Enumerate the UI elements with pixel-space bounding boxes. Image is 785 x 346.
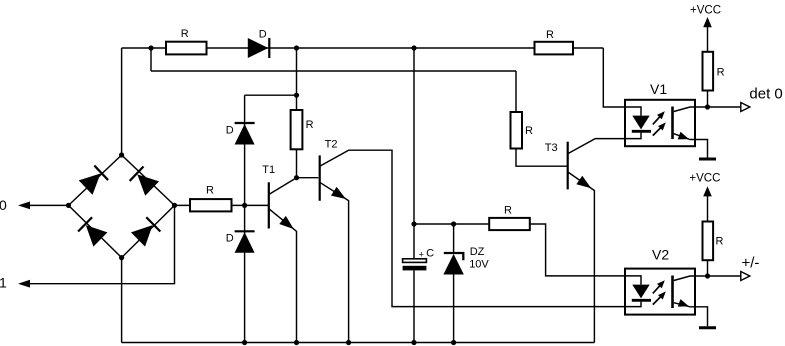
svg-text:+VCC: +VCC [690,5,721,17]
node dot column top link [294,93,299,98]
zener column lower wire [453,275,455,343]
optocoupler V1 box [625,100,695,146]
diode bridge top-left [79,166,108,195]
wire R pullup V2 to node [707,260,709,276]
svg-text:+: + [419,250,424,260]
transistor T1 [268,182,270,228]
wire bridge bottom drop [121,258,123,343]
node dot bottom rail 2 [294,340,299,345]
svg-text:R: R [717,67,725,79]
node dot bridge right [172,203,177,208]
svg-text:R: R [546,29,554,41]
node input 0 arrowhead [18,202,30,210]
wire V1 emitter [674,134,708,158]
ground V2 [699,326,716,329]
resistor R pullup V2 [703,222,714,261]
svg-text:det 0: det 0 [749,86,782,103]
zener DZ triangle [443,254,463,275]
wire x=414 rail drop [413,48,415,259]
V2 photo bar [671,276,674,309]
node dot T1 base / column [242,203,247,208]
zener column upper wire [453,224,455,253]
node dot bridge top [119,152,124,157]
T3 emitter arrow [576,176,594,193]
wire V2 emitter [674,303,708,327]
V2 LED triangle [632,285,649,299]
V2 LED cathode bar [632,299,651,302]
diode D lower (column) [235,231,255,253]
transistor T3 [567,142,569,190]
svg-text:R: R [206,184,214,196]
V1 LED triangle [632,116,649,130]
capacitor C plate top [403,259,427,263]
resistor R above T1 [291,110,303,149]
wire column top link y=95.2 [245,94,297,96]
wire T2 collector [320,150,625,306]
wire VCC2 arrow to R [707,196,709,222]
wire T3 emitter [568,172,595,343]
V1 LED cathode path [625,133,641,139]
V2 LED cathode path [625,302,641,307]
wire top-right drop x=603.3 to V1 anode [603,48,625,107]
resistor R1 top rail [166,42,207,55]
V1 photo emitter arrow [678,132,691,143]
wire input 0 lead [28,204,69,206]
svg-text:T1: T1 [262,164,275,176]
V2 light arrow 1 [653,282,663,293]
node dot T1 collector [294,175,299,180]
supply +VCC 2 arrow [703,186,712,196]
V2 photo emitter arrow [678,299,691,310]
resistor R above T3 [511,112,523,149]
node det 0 output arrow [741,103,750,112]
resistor R2 top rail right [535,42,574,55]
zener DZ bar [444,253,464,260]
wire R row224 to V2 anode [530,224,625,276]
diode bridge bottom-right [131,217,160,246]
wire top-left drop to bridge top [121,48,123,155]
node dot bottom rail 4 [411,340,416,345]
node dot det0 [705,104,710,109]
wire top rail y=48 [122,47,604,49]
wire bridge diamond [69,155,175,258]
wire T1 emitter [269,209,297,343]
transistor T2 [319,155,321,200]
wire R pullup V1 to node [707,91,709,108]
diode D upper (column) [235,123,255,145]
resistor R (bridge to T1 base) [190,199,232,211]
V1 LED cathode bar [632,130,651,133]
wire R to T3 base [516,149,567,167]
svg-text:V2: V2 [652,247,669,263]
wire stub from node at (151,48) down to second rail [150,48,152,71]
node dot bridge bottom [119,255,124,260]
node dot bottom rail 1 [242,340,247,345]
capacitor C plate bottom [403,266,427,271]
wire second rail y=71 [151,70,516,72]
V2 light arrow 2 [653,293,664,304]
V2 LED anode path [625,276,641,285]
wire T2 base link [297,177,319,179]
wire T3 collector [568,139,625,154]
node dot bottom rail 5 [451,340,456,345]
svg-text:+VCC: +VCC [689,172,720,184]
svg-text:T2: T2 [325,138,338,150]
svg-text:R: R [504,204,512,216]
node +/- output arrow [741,272,750,281]
node dot top rail x414 [411,45,416,50]
V1 light arrow 2 [653,124,664,135]
diode bridge bottom-left [78,217,107,246]
svg-text:R: R [306,119,314,131]
svg-text:R: R [716,236,724,248]
ground V1 [699,158,716,161]
svg-text:R: R [525,125,533,137]
node input 1 arrowhead [18,280,30,288]
node dot row224 zener [451,221,456,226]
resistor R row224 [489,218,530,230]
svg-text:D: D [226,233,234,245]
wire V2 collector to +/- [674,276,741,281]
node dot top rail left [148,45,153,50]
T1 emitter arrow [279,216,297,233]
V1 photo bar [671,107,674,140]
svg-text:C: C [426,247,434,259]
node dot +/- [705,273,710,278]
wire T1 collector [269,178,297,195]
T2 emitter arrow [331,187,349,204]
svg-text:DZ: DZ [470,246,485,258]
wire x=414 below capacitor [413,270,415,342]
node dot bottom rail 3 [346,340,351,345]
wire R bottom to collector node [296,149,298,177]
wire VCC1 arrow to R [707,27,709,52]
svg-text:T3: T3 [545,142,558,154]
node dot row224 left [411,221,416,226]
supply +VCC 1 arrow [703,17,712,27]
wire input 1 lead [28,205,175,283]
svg-text:V1: V1 [650,81,667,97]
wire diode column x=244.6 [244,95,246,342]
svg-text:10V: 10V [469,259,489,271]
wire x=296.5 from top rail to R [296,48,298,110]
diode bridge top-right [130,166,159,195]
wire base rail y=205.4 from bridge to T1 [175,204,269,206]
wire x=516 drop from second rail [515,71,517,112]
V1 LED anode path [625,107,641,116]
svg-text:D: D [226,125,234,137]
diode D top rail [248,38,270,58]
svg-text:1: 1 [0,275,7,291]
wire T2 emitter [320,182,349,342]
optocoupler V2 box [625,269,695,315]
svg-text:+/-: +/- [742,255,760,272]
node dot bridge left [66,203,71,208]
wire bottom rail y=342.5 [122,342,595,344]
wire y=224 row [414,223,489,225]
V1 light arrow 1 [653,113,663,124]
svg-text:R: R [181,28,189,40]
svg-text:0: 0 [0,197,7,213]
svg-text:D: D [259,29,267,41]
resistor R pullup V1 [703,52,714,91]
node dot top rail mid [294,45,299,50]
wire V1 collector to det0 [674,107,741,112]
